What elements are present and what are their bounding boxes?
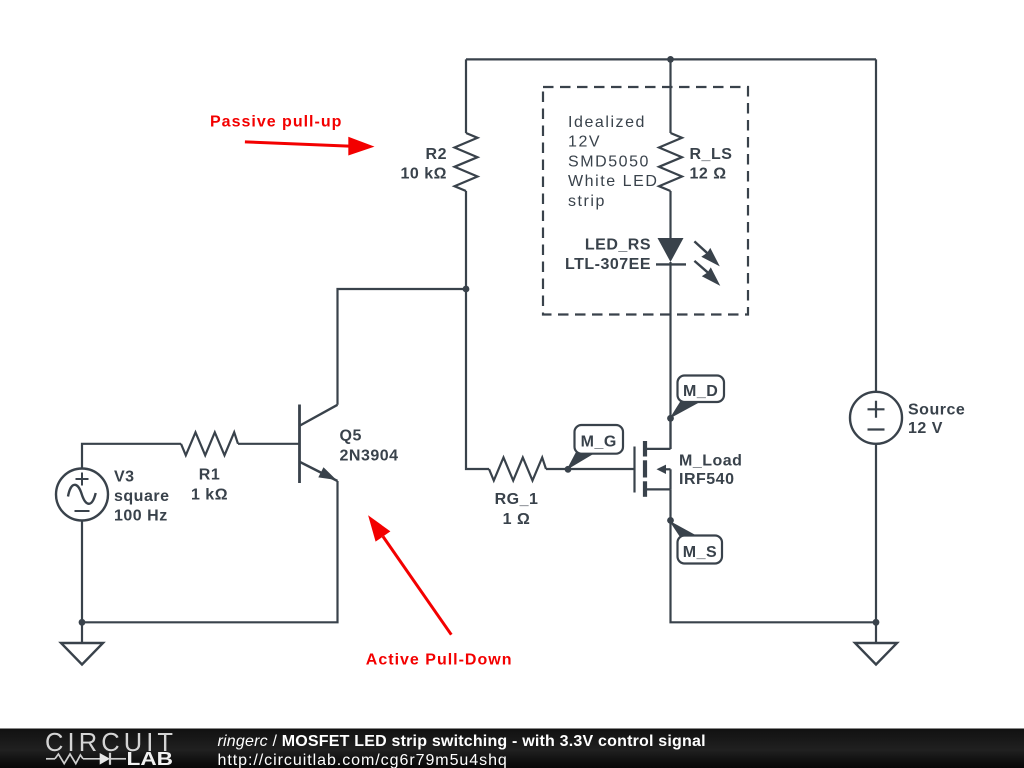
svg-text:1 kΩ: 1 kΩ	[191, 487, 228, 504]
svg-text:IRF540: IRF540	[679, 471, 734, 488]
resistor RG_1	[489, 458, 546, 481]
svg-text:strip: strip	[568, 193, 606, 210]
resistor R1	[181, 432, 238, 455]
svg-text:square: square	[114, 488, 169, 505]
wire junction to RG_1	[466, 289, 489, 469]
ground left	[61, 622, 103, 664]
wire RG_1 to gate	[546, 468, 634, 470]
svg-text:LAB: LAB	[127, 749, 174, 768]
svg-text:Passive pull-up: Passive pull-up	[210, 114, 342, 131]
voltage source V3	[56, 469, 108, 521]
svg-text:M_D: M_D	[683, 383, 718, 400]
svg-text:Active Pull-Down: Active Pull-Down	[366, 651, 513, 668]
svg-text:10 kΩ: 10 kΩ	[401, 166, 447, 183]
svg-text:RG_1: RG_1	[495, 491, 539, 508]
node right ground junction	[873, 619, 880, 626]
resistor R_LS	[659, 133, 682, 191]
svg-text:M_Load: M_Load	[679, 453, 742, 470]
dashed LED strip box	[543, 87, 748, 315]
wire top rail	[466, 58, 876, 60]
wire bottom left to Q5 emitter	[82, 481, 338, 622]
svg-text:R_LS: R_LS	[690, 146, 733, 163]
transistor Q5	[300, 405, 338, 484]
node M_S source	[667, 517, 674, 524]
svg-text:V3: V3	[114, 469, 135, 486]
svg-text:12V: 12V	[568, 134, 601, 151]
svg-text:ringerc / MOSFET LED strip swi: ringerc / MOSFET LED strip switching - w…	[218, 733, 706, 750]
svg-text:http://circuitlab.com/cg6r79m5: http://circuitlab.com/cg6r79m5u4shq	[218, 752, 508, 768]
wire R_LS to LED	[669, 191, 671, 238]
svg-text:100 Hz: 100 Hz	[114, 508, 168, 525]
svg-text:12 Ω: 12 Ω	[690, 166, 727, 183]
wire R2 top lead	[465, 59, 467, 133]
node top rail junction	[667, 56, 674, 63]
wire right rail top	[875, 59, 877, 391]
svg-text:LED_RS: LED_RS	[585, 237, 651, 254]
wire right rail bottom	[875, 444, 877, 623]
arrow passive pull-up	[245, 137, 375, 156]
svg-text:2N3904: 2N3904	[340, 448, 399, 465]
svg-text:R2: R2	[426, 146, 447, 163]
svg-text:M_G: M_G	[581, 434, 617, 451]
node left ground junction	[79, 619, 86, 626]
node M_G gate junction	[565, 466, 572, 473]
flag M_D	[670, 376, 725, 419]
wire V3 top to R1	[82, 444, 181, 469]
svg-text:R1: R1	[199, 467, 220, 484]
svg-text:1 Ω: 1 Ω	[503, 511, 531, 528]
wire MOSFET source down and to right ground	[671, 490, 877, 623]
wire to Q5 collector	[338, 289, 467, 405]
mosfet M_Load IRF540	[635, 418, 671, 497]
node R2 / collector junction	[463, 286, 470, 293]
logo resistor-diode glyph	[46, 753, 126, 765]
wire LED to MOSFET drain	[669, 262, 671, 449]
node M_D drain	[667, 415, 674, 422]
ground right	[855, 622, 897, 664]
svg-text:Source: Source	[908, 402, 965, 419]
resistor R2	[455, 133, 478, 191]
footer bar	[0, 729, 1024, 768]
svg-text:LTL-307EE: LTL-307EE	[565, 256, 651, 273]
flag M_S	[669, 521, 722, 564]
wire R2 bottom lead	[465, 191, 467, 289]
svg-text:Q5: Q5	[340, 428, 362, 445]
svg-text:SMD5050: SMD5050	[568, 153, 650, 170]
LED LED_RS LTL-307EE	[656, 238, 720, 286]
flag M_G	[567, 425, 624, 470]
wire R_LS top lead	[669, 59, 671, 133]
wire R1 to Q5 base	[238, 443, 299, 445]
svg-text:12 V: 12 V	[908, 420, 943, 437]
annotation text LED strip	[568, 114, 658, 210]
voltage source Source 12V	[850, 392, 902, 444]
arrow active pull-down	[368, 515, 451, 635]
svg-text:Idealized: Idealized	[568, 114, 646, 131]
wire V3 bottom lead	[81, 521, 83, 623]
svg-text:M_S: M_S	[683, 544, 717, 561]
svg-text:White LED: White LED	[568, 173, 658, 190]
